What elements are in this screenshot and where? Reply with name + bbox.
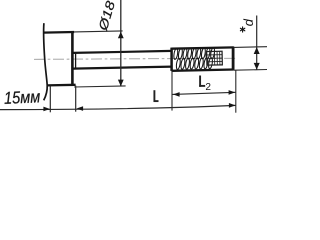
- dimension *d: label asterisk: [240, 27, 244, 32]
- shank top line: [73, 51, 172, 53]
- dimension o18: bottom extension line: [74, 86, 125, 87]
- shank bottom line: [73, 67, 172, 69]
- dimension *d: dimension line: [256, 16, 258, 70]
- rod end right edge: [232, 47, 235, 70]
- dimension 15mm: right-pointing arrow: [43, 107, 50, 112]
- dimension 15mm: left-pointing arrow: [77, 106, 84, 111]
- centerline (axis, dash-dot): [34, 58, 236, 59]
- dimension L2: dimension line: [172, 92, 236, 94]
- dimension o18: up arrow: [118, 32, 124, 39]
- spring coils: [173, 47, 216, 69]
- dimension *d: up arrow: [254, 47, 260, 54]
- dimension *d: bottom extension line: [234, 69, 267, 72]
- dimension L2: subscript 2: [206, 83, 211, 90]
- dimension L2: left extension line: [171, 71, 173, 111]
- spring section left edge: [170, 48, 173, 71]
- dimension o18: top extension line: [74, 31, 122, 32]
- dimension 15mm: right extension line: [75, 86, 77, 112]
- head break line (wavy left edge): [44, 23, 48, 100]
- dimension *d: label d: [243, 19, 253, 26]
- head right edge: [71, 31, 74, 86]
- dimension L: right arrow: [229, 103, 236, 108]
- dimension o18: down arrow: [118, 80, 124, 87]
- dimension *d: top extension line: [234, 46, 267, 49]
- nut with cross hatch: [207, 51, 223, 65]
- dimension L2: label L (drawn strokes): [199, 76, 205, 87]
- dimension *d: down arrow: [254, 63, 260, 70]
- dimension o18: dimension line: [120, 0, 122, 86]
- dimension 15mm: label: [4, 91, 40, 105]
- dimension L: label (drawn strokes): [154, 90, 159, 102]
- spring section rectangle top: [171, 47, 233, 48]
- dimension L2: left arrow: [173, 92, 180, 97]
- head top line: [43, 31, 74, 34]
- bottom dimension line (15mm and L): [0, 105, 236, 109]
- dimension o18: label: [98, 0, 116, 32]
- spring section rectangle bottom: [171, 70, 233, 71]
- dimension 15mm: left extension line: [49, 86, 51, 113]
- collar line at shank start: [75, 53, 77, 69]
- dimension L2: right arrow: [229, 90, 236, 95]
- head bottom line: [47, 84, 76, 87]
- dimension L2 and L: right extension line: [235, 70, 237, 113]
